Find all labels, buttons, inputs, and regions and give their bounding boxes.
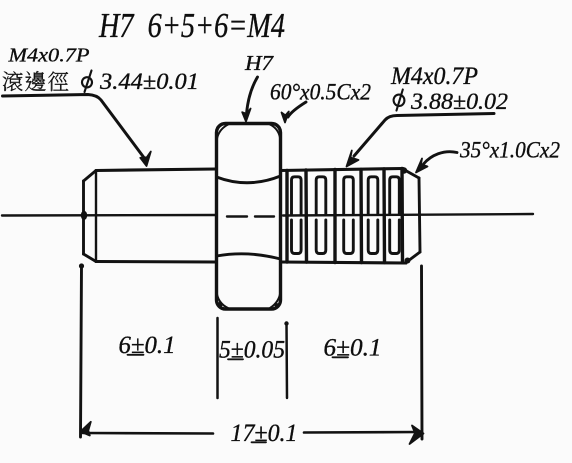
thread crest loop bottom 5	[390, 220, 400, 254]
leader underline+arrow for rolled thread dia (left)	[3, 95, 146, 160]
right end top chamfer	[402, 169, 419, 179]
ink blob hex bottom-right corner	[275, 303, 280, 308]
leader arrow for H7	[247, 77, 258, 114]
extension line left	[81, 265, 82, 437]
shaft bottom edge	[96, 260, 216, 264]
ink blob top right corner	[401, 167, 407, 173]
hex corner arc top-right	[270, 125, 281, 142]
label CJK char 徑	[48, 72, 68, 92]
thread crest loop bottom 4	[368, 220, 378, 254]
ink blob centerline x left cap	[81, 211, 87, 220]
svg-text:M4x0.7P: M4x0.7P	[7, 45, 89, 67]
thread crest loop bottom 1	[292, 220, 302, 254]
svg-text:35°x1.0Cx2: 35°x1.0Cx2	[459, 138, 560, 163]
shaft top edge	[96, 169, 216, 171]
svg-text:17±0.1: 17±0.1	[231, 420, 298, 447]
extension line right	[420, 266, 423, 439]
svg-text:3.88±0.02: 3.88±0.02	[410, 89, 508, 114]
svg-text:H7 6+5+6=M4: H7 6+5+6=M4	[98, 6, 285, 45]
leader arrow for 35° chamfer	[424, 152, 458, 164]
thread crest loop top 2	[316, 177, 326, 214]
thread crest loop top 4	[368, 177, 378, 214]
right end edge	[419, 178, 420, 252]
label phi symbol (left)	[81, 71, 93, 93]
shaft chamfer edge line	[95, 171, 97, 262]
dim arrow right	[410, 426, 424, 445]
thread root line 4	[359, 170, 363, 263]
plus-minus underbar 5	[228, 358, 243, 360]
ink blob top of left extension	[79, 263, 84, 268]
thread crest loop bottom 3	[344, 220, 354, 254]
hex lower facet line	[217, 254, 281, 259]
centerline dash inside hex	[227, 215, 274, 217]
right end bottom chamfer	[406, 252, 420, 263]
leader arrow for 60° chamfer	[288, 102, 306, 117]
hex corner arc bottom-left	[217, 291, 229, 308]
extension line hex left	[216, 318, 219, 398]
ink blob hex bottom-left corner	[217, 302, 222, 307]
dim arrow left	[81, 422, 91, 436]
thread root line 2	[304, 170, 308, 262]
plus-minus underbar 6R	[333, 356, 349, 358]
centerline left segment	[2, 214, 216, 217]
ink blob bottom right corner	[405, 258, 411, 264]
hex upper facet line	[217, 176, 281, 183]
thread section top edge	[281, 169, 404, 171]
hex corner arc bottom-right	[270, 291, 281, 308]
dimension line 17 left segment	[83, 432, 213, 435]
hex nut outline	[217, 124, 281, 310]
ink blob top of hex-right extension	[284, 321, 288, 325]
shaft bottom chamfer	[84, 254, 97, 262]
thread crest loop top 3	[344, 177, 354, 214]
shaft left end cap	[82, 181, 85, 254]
plus-minus underbar 6L	[128, 354, 144, 356]
svg-text:60°x0.5Cx2: 60°x0.5Cx2	[270, 80, 371, 105]
plus-minus underbar 17	[252, 441, 267, 443]
centerline right segment	[283, 214, 533, 216]
svg-text:3.44±0.01: 3.44±0.01	[99, 69, 199, 94]
thread root line 6	[400, 169, 404, 263]
thread root line 5	[382, 169, 386, 263]
svg-text:H7: H7	[244, 51, 275, 75]
label phi symbol (right)	[393, 90, 406, 111]
thread section bottom edge	[281, 262, 407, 263]
extension line hex right	[285, 323, 288, 398]
shaft top chamfer	[84, 171, 97, 182]
dimension line 17 right segment	[304, 431, 421, 434]
thread crest loop top 5	[390, 177, 400, 214]
leader underline+arrow for thread dia (right)	[354, 114, 494, 157]
thread crest loop bottom 2	[316, 220, 326, 254]
svg-text:M4x0.7P: M4x0.7P	[390, 63, 478, 90]
thread crest loop top 1	[292, 177, 302, 214]
label CJK char 邊	[25, 71, 45, 91]
thread root line 3	[333, 170, 336, 263]
hex corner arc top-left	[217, 125, 229, 143]
label CJK char 滾	[3, 72, 23, 92]
thread root line 1	[285, 171, 288, 263]
